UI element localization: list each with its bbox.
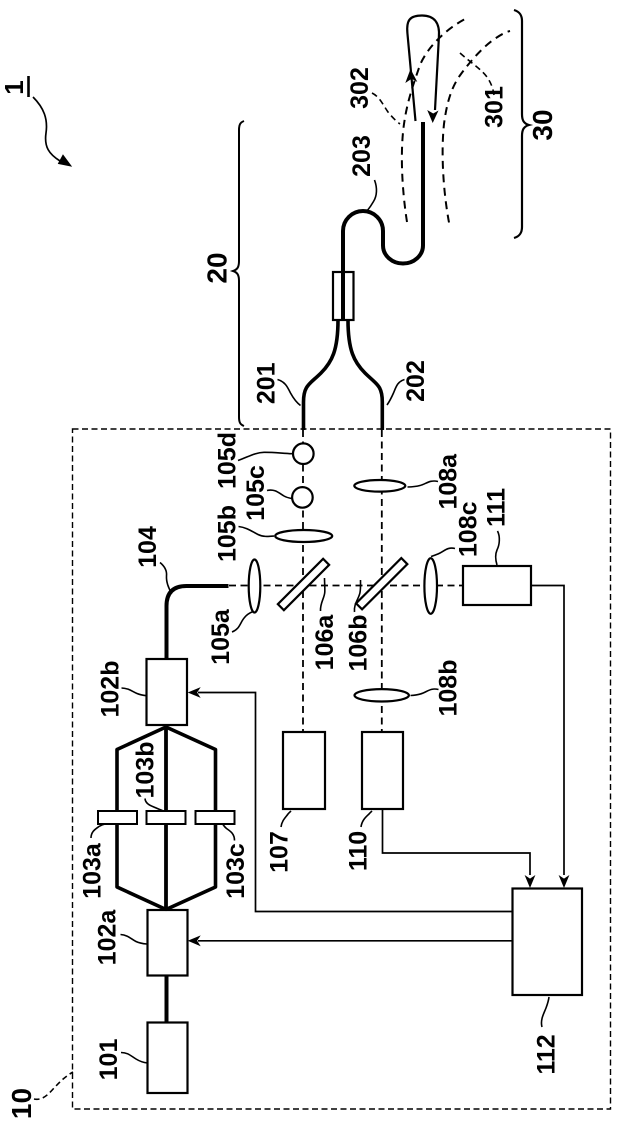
svg-text:102b: 102b — [96, 661, 124, 718]
brace 20 — [233, 121, 244, 426]
svg-text:112: 112 — [533, 1034, 561, 1074]
svg-text:103b: 103b — [132, 742, 160, 799]
svg-text:20: 20 — [202, 252, 233, 283]
collimator 105d — [214, 432, 314, 489]
signal line 111 to 112 — [531, 586, 569, 889]
light path hairpin 302 — [346, 16, 439, 125]
svg-text:101: 101 — [95, 1039, 123, 1081]
svg-text:103a: 103a — [79, 842, 107, 899]
box 101 light source — [95, 1023, 188, 1094]
svg-text:202: 202 — [402, 360, 430, 402]
svg-text:105b: 105b — [214, 505, 242, 562]
vessel wall left 301 — [402, 17, 469, 222]
fiber 202 — [348, 320, 430, 430]
svg-text:105a: 105a — [207, 608, 235, 665]
svg-text:104: 104 — [134, 526, 162, 568]
svg-text:111: 111 — [483, 488, 511, 527]
svg-text:102a: 102a — [94, 909, 122, 966]
vessel wall right 301 — [443, 31, 510, 223]
lens 105a — [207, 560, 260, 665]
svg-text:203: 203 — [348, 135, 376, 177]
svg-text:107: 107 — [266, 831, 294, 873]
beamsplitter 106a — [278, 559, 339, 670]
svg-text:108a: 108a — [435, 453, 463, 510]
beam path vertical dashed x=381 — [381, 430, 383, 732]
svg-text:106b: 106b — [345, 615, 373, 672]
fiber coupler connector — [333, 272, 354, 320]
fiber 201 — [253, 320, 338, 430]
label 10 — [6, 1072, 73, 1119]
svg-text:108b: 108b — [435, 660, 463, 717]
lens 108c — [424, 501, 482, 613]
svg-text:106a: 106a — [311, 614, 339, 671]
svg-text:10: 10 — [6, 1088, 37, 1119]
fiber 104 — [134, 526, 229, 659]
interferometer arms 103 — [117, 725, 216, 910]
box 107 mirror unit — [266, 732, 326, 873]
fiber 203 catheter — [343, 122, 423, 320]
lens 108a — [354, 453, 462, 510]
svg-text:105c: 105c — [242, 465, 270, 521]
svg-text:103c: 103c — [222, 843, 250, 899]
box 112 controller — [513, 889, 583, 1075]
svg-text:201: 201 — [253, 362, 281, 404]
beam path vertical dashed x=303 — [302, 430, 304, 732]
box 102b modulator — [96, 659, 187, 725]
box 111 detector — [463, 488, 531, 605]
svg-text:110: 110 — [345, 831, 373, 871]
svg-text:302: 302 — [346, 67, 374, 109]
dashed enclosure box 10 — [73, 429, 611, 1109]
svg-text:105d: 105d — [214, 432, 242, 489]
signal line 112 to 102a — [188, 935, 512, 946]
lens 108b — [355, 660, 463, 717]
svg-text:1: 1 — [0, 80, 29, 94]
svg-text:108c: 108c — [454, 501, 482, 557]
beamsplitter 106b — [345, 558, 408, 671]
label 301 — [460, 53, 509, 128]
plate 103b — [132, 742, 186, 824]
box 102a modulator — [94, 909, 188, 976]
svg-text:301: 301 — [481, 86, 509, 128]
figure number 1 — [0, 76, 71, 166]
beam path horizontal dashed — [229, 585, 463, 587]
brace 30 — [514, 10, 529, 238]
plate 103c — [196, 811, 251, 899]
fiber link 101-102a — [165, 976, 169, 1023]
signal line 110 to 112 — [383, 809, 536, 888]
plate 103a — [79, 811, 138, 899]
svg-text:30: 30 — [527, 109, 558, 140]
signal line 112 to 102b — [188, 687, 512, 911]
collimator 105c — [242, 465, 313, 521]
box 110 detector — [345, 732, 404, 871]
lens 105b — [214, 505, 333, 562]
